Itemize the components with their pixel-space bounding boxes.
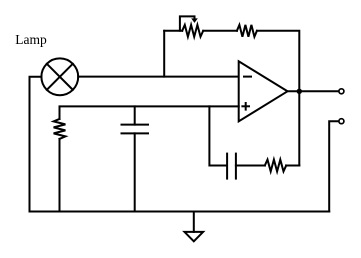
- wire R3 bottom lead: [59, 139, 61, 212]
- terminal output lower: [339, 119, 344, 124]
- lamp DS1: [41, 58, 78, 95]
- wire top feedback left segment: [164, 30, 182, 32]
- node output junction: [297, 89, 301, 93]
- resistor R3: [54, 119, 66, 139]
- wire op-amp output to terminal: [288, 90, 339, 92]
- wire lamp left to bottom rail: [30, 77, 42, 212]
- svg-text:Lamp: Lamp: [15, 32, 47, 47]
- op-amp U1: [239, 61, 288, 121]
- potentiometer R1: [180, 16, 203, 36]
- ground: [185, 212, 204, 242]
- wire C2 to R4: [236, 165, 265, 167]
- wire R2 to right corner and down to output node: [257, 31, 299, 92]
- wire plus node down to bottom feedback: [209, 106, 226, 165]
- wire bottom rail: [30, 211, 330, 213]
- capacitor C2: [227, 154, 236, 179]
- wire R4 to right vertical: [286, 165, 299, 167]
- wire output node down to bottom feedback corner: [298, 91, 300, 165]
- capacitor C1: [122, 106, 149, 211]
- wire lower terminal to bottom rail: [329, 121, 338, 211]
- resistor R4: [265, 160, 286, 172]
- resistor R2: [237, 25, 257, 37]
- terminal output upper: [339, 89, 344, 94]
- wire plus input rail: [60, 106, 239, 119]
- wire between R1 and R2: [203, 30, 237, 32]
- wire lamp right to op-amp minus input: [78, 76, 239, 78]
- wire feedback vertical from minus node up: [163, 31, 165, 77]
